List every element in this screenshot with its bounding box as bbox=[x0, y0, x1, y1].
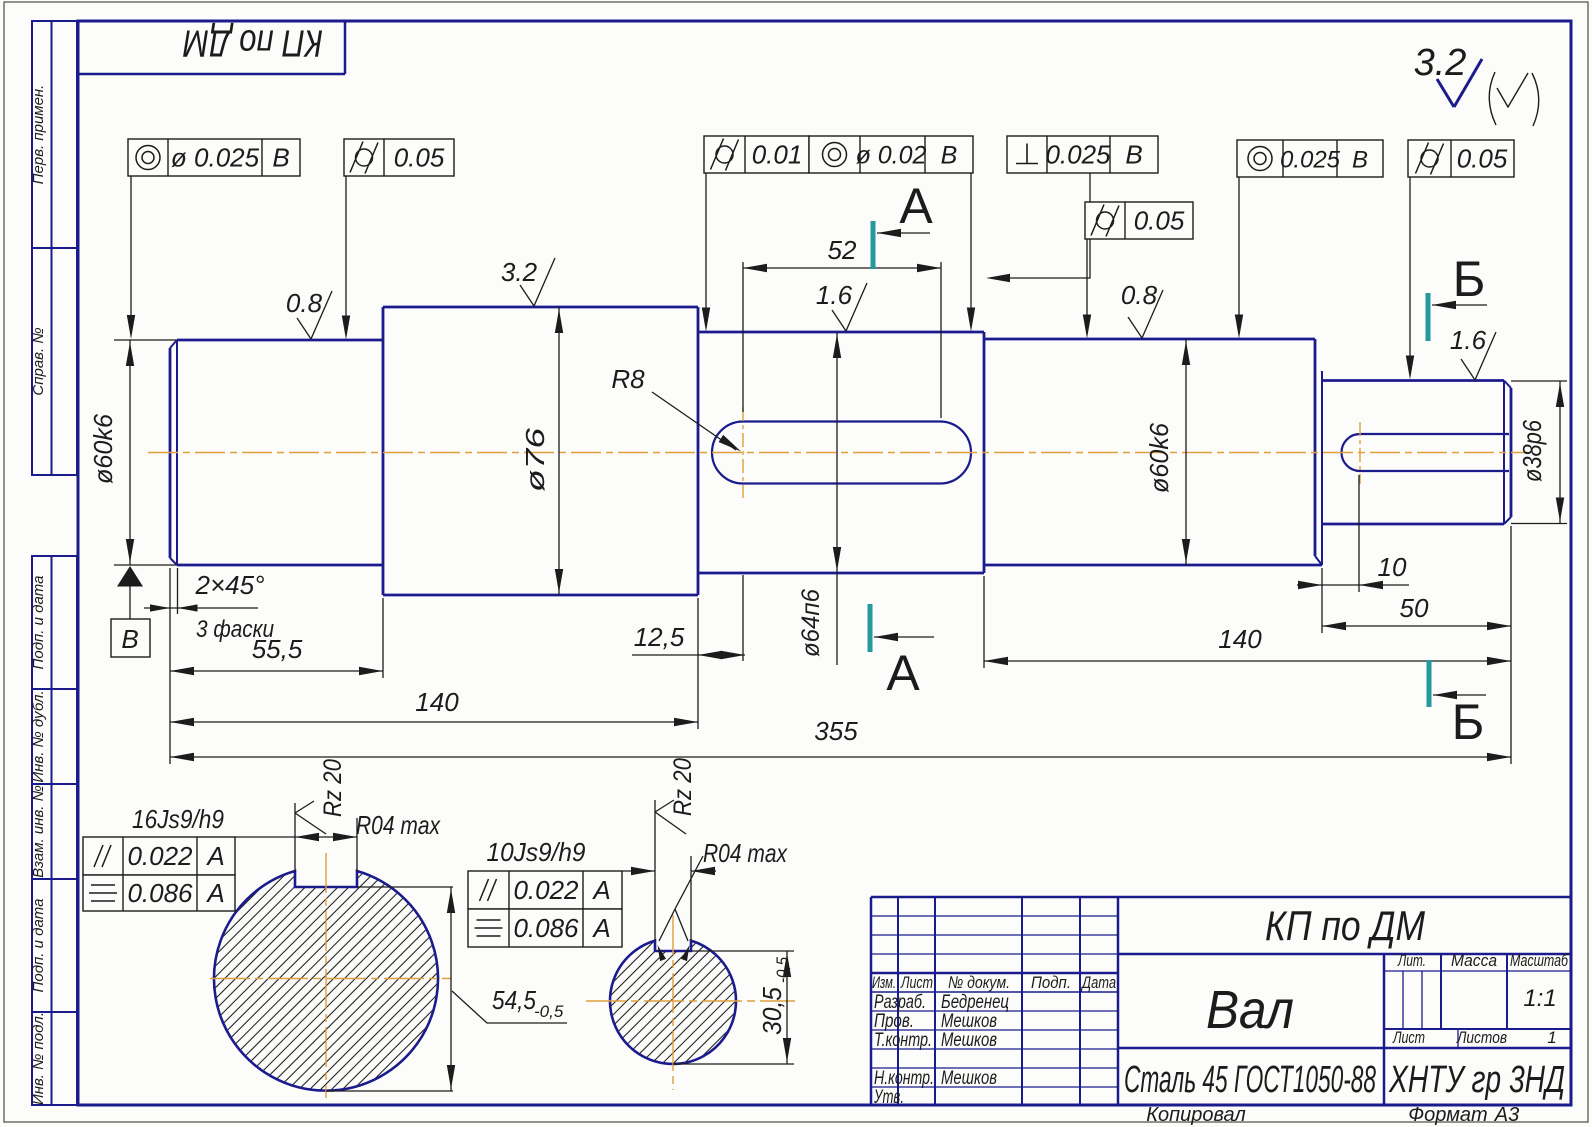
svg-text:Дата: Дата bbox=[1080, 973, 1116, 992]
svg-text:В: В bbox=[272, 143, 289, 173]
svg-text:R8: R8 bbox=[611, 364, 645, 394]
svg-text:Масштаб: Масштаб bbox=[1510, 951, 1569, 970]
svg-text:Мешков: Мешков bbox=[941, 1068, 997, 1089]
svg-text:№ докум.: № докум. bbox=[948, 973, 1010, 992]
svg-text:16Js9/h9: 16Js9/h9 bbox=[132, 804, 224, 834]
svg-text:0.086: 0.086 bbox=[127, 878, 193, 908]
svg-text:Формат: Формат bbox=[1408, 1104, 1487, 1126]
svg-text:А3: А3 bbox=[1494, 1104, 1519, 1126]
svg-text:0.025: 0.025 bbox=[1280, 147, 1341, 174]
svg-text:В: В bbox=[941, 142, 958, 170]
svg-text:Мешков: Мешков bbox=[941, 1030, 997, 1051]
svg-text:Лист: Лист bbox=[900, 973, 933, 992]
svg-text:R04 max: R04 max bbox=[703, 838, 788, 868]
svg-text:КП по ДМ: КП по ДМ bbox=[1265, 902, 1425, 949]
svg-text:А: А bbox=[886, 645, 920, 701]
svg-text:ø60k6: ø60k6 bbox=[88, 413, 118, 484]
svg-text:0.022: 0.022 bbox=[513, 875, 579, 905]
svg-text:ХНТУ гр 3НД: ХНТУ гр 3НД bbox=[1388, 1059, 1565, 1101]
svg-text:Взам. инв. №: Взам. инв. № bbox=[30, 785, 47, 878]
svg-text:А: А bbox=[591, 913, 610, 943]
svg-text:50: 50 bbox=[1400, 593, 1429, 623]
svg-text:А: А bbox=[205, 841, 224, 871]
svg-text:Разраб.: Разраб. bbox=[874, 992, 926, 1013]
svg-text:Копировал: Копировал bbox=[1146, 1104, 1245, 1126]
svg-text:52: 52 bbox=[828, 235, 857, 265]
svg-text:Мешков: Мешков bbox=[941, 1011, 997, 1032]
svg-text:3.2: 3.2 bbox=[501, 257, 538, 287]
svg-text:ø76: ø76 bbox=[520, 427, 550, 492]
svg-text:Лист: Лист bbox=[1392, 1028, 1425, 1047]
svg-text:ø38p6: ø38p6 bbox=[1517, 420, 1547, 482]
svg-text:Вал: Вал bbox=[1206, 980, 1294, 1040]
svg-text:Н.контр.: Н.контр. bbox=[874, 1068, 934, 1089]
svg-text:ø 0.02: ø 0.02 bbox=[856, 142, 927, 170]
svg-text:Подп.: Подп. bbox=[1031, 973, 1071, 992]
svg-text:1: 1 bbox=[1547, 1028, 1556, 1047]
svg-text:Масса: Масса bbox=[1451, 951, 1497, 970]
svg-text:140: 140 bbox=[415, 687, 459, 717]
svg-text:0.8: 0.8 bbox=[1121, 280, 1158, 310]
svg-text:Инв. № подл.: Инв. № подл. bbox=[30, 1012, 47, 1105]
svg-text:1.6: 1.6 bbox=[816, 280, 853, 310]
svg-text:0.086: 0.086 bbox=[513, 913, 579, 943]
svg-text:КП по ДМ: КП по ДМ bbox=[183, 22, 323, 64]
svg-text:1:1: 1:1 bbox=[1523, 985, 1556, 1012]
svg-text:10: 10 bbox=[1378, 552, 1407, 582]
svg-text:3.2: 3.2 bbox=[1414, 42, 1467, 84]
svg-text:Сталь 45 ГОСТ1050-88: Сталь 45 ГОСТ1050-88 bbox=[1124, 1059, 1376, 1101]
svg-text:355: 355 bbox=[814, 716, 858, 746]
svg-text:54,5: 54,5 bbox=[492, 985, 536, 1015]
svg-text:0.01: 0.01 bbox=[752, 140, 803, 170]
svg-text:0.025: 0.025 bbox=[1045, 140, 1111, 170]
svg-text:Утв.: Утв. bbox=[873, 1087, 904, 1108]
svg-text:В: В bbox=[121, 624, 138, 654]
svg-text:Подп. и дата: Подп. и дата bbox=[30, 576, 47, 670]
svg-text:Б: Б bbox=[1452, 694, 1485, 750]
svg-text:Rz 20: Rz 20 bbox=[319, 759, 347, 817]
svg-text:Бедренец: Бедренец bbox=[941, 992, 1009, 1013]
svg-text:Изм.: Изм. bbox=[872, 973, 896, 992]
svg-text:2×45°: 2×45° bbox=[195, 570, 265, 600]
svg-text:0.05: 0.05 bbox=[1134, 206, 1185, 236]
svg-text:В: В bbox=[1352, 147, 1368, 174]
svg-text:140: 140 bbox=[1218, 624, 1262, 654]
svg-text:Перв. примен.: Перв. примен. bbox=[30, 85, 47, 185]
svg-text:В: В bbox=[1125, 140, 1142, 170]
svg-text:R04 max: R04 max bbox=[356, 810, 441, 840]
svg-text:0.05: 0.05 bbox=[1457, 144, 1508, 174]
svg-text:ø64п6: ø64п6 bbox=[797, 589, 825, 657]
svg-text:0.05: 0.05 bbox=[394, 143, 445, 173]
svg-text:30,5: 30,5 bbox=[757, 986, 787, 1035]
svg-text:12,5: 12,5 bbox=[634, 622, 685, 652]
svg-text:Б: Б bbox=[1453, 251, 1486, 307]
svg-text:1.6: 1.6 bbox=[1450, 325, 1487, 355]
svg-text:А: А bbox=[205, 878, 224, 908]
svg-text:0.022: 0.022 bbox=[127, 841, 193, 871]
svg-text:3 фаски: 3 фаски bbox=[196, 616, 274, 643]
svg-text:Справ. №: Справ. № bbox=[30, 327, 47, 395]
svg-text:ø60k6: ø60k6 bbox=[1144, 422, 1174, 493]
svg-text:Листов: Листов bbox=[1456, 1028, 1507, 1047]
svg-text:0.8: 0.8 bbox=[286, 288, 323, 318]
svg-text:-0,5: -0,5 bbox=[773, 957, 792, 983]
svg-text:Пров.: Пров. bbox=[874, 1011, 914, 1032]
svg-text:Подп. и дата: Подп. и дата bbox=[30, 899, 47, 993]
svg-text:Лит.: Лит. bbox=[1397, 951, 1426, 970]
svg-text:А: А bbox=[591, 875, 610, 905]
svg-text:Инв. № дубл.: Инв. № дубл. bbox=[30, 690, 47, 782]
svg-text:Rz 20: Rz 20 bbox=[669, 758, 697, 816]
svg-text:А: А bbox=[899, 178, 933, 234]
svg-text:10Js9/h9: 10Js9/h9 bbox=[487, 837, 586, 867]
svg-text:ø 0.025: ø 0.025 bbox=[171, 143, 260, 173]
svg-text:Т.контр.: Т.контр. bbox=[874, 1030, 932, 1051]
svg-text:-0,5: -0,5 bbox=[534, 1002, 564, 1021]
